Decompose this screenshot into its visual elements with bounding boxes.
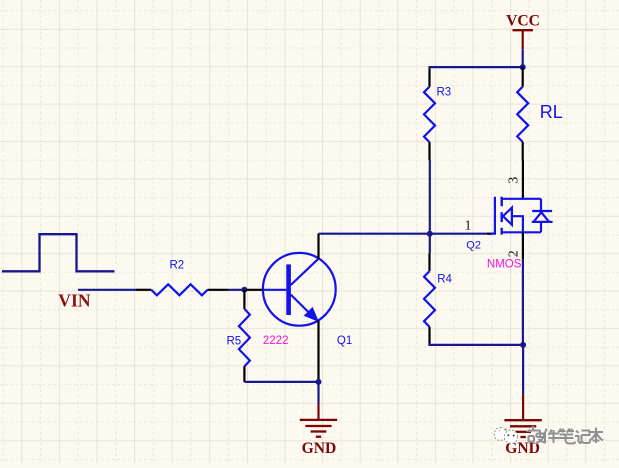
svg-text:2222: 2222 [263, 335, 289, 347]
watermark logo and text [494, 427, 518, 443]
pulse waveform source [2, 234, 115, 271]
wire Q2 source to node E [522, 259, 524, 345]
node E junction source/R4/GND [520, 342, 526, 348]
ground GND left [300, 404, 337, 457]
transistor Q1 [246, 234, 352, 381]
resistor R5 [227, 290, 250, 382]
svg-text:2: 2 [507, 250, 522, 257]
svg-text:Q2: Q2 [466, 239, 481, 251]
MOSFET Q2 [466, 197, 552, 252]
svg-text:R3: R3 [437, 86, 452, 98]
wire VCC rail [430, 67, 523, 68]
wire node E to ground [522, 345, 524, 394]
resistor R3 [424, 68, 451, 160]
resistor RL [517, 67, 563, 160]
Q2 source pin 2 [522, 232, 524, 259]
wire R5 bottom to node B [244, 381, 318, 383]
svg-text:3: 3 [507, 177, 522, 184]
wire node C to R4 [429, 234, 431, 253]
svg-text:Q1: Q1 [337, 335, 352, 347]
svg-text:VCC: VCC [506, 13, 540, 30]
node A junction at base [241, 287, 247, 293]
svg-text:R4: R4 [437, 274, 452, 286]
wire RL to Q2 drain pin 3 [522, 160, 524, 199]
wire node B to ground [317, 382, 319, 404]
wire R4 to node E [430, 344, 524, 345]
svg-text:R2: R2 [170, 260, 185, 272]
resistor R4 [424, 253, 453, 343]
svg-text:R5: R5 [227, 335, 242, 347]
wire R3 to node C [429, 160, 431, 234]
node D junction VCC/RL [520, 64, 526, 70]
svg-text:GND: GND [302, 440, 337, 457]
node B junction emitter/R5/GND [316, 379, 322, 385]
ground GND right [504, 394, 541, 457]
svg-text:NMOS: NMOS [487, 259, 522, 271]
wire Q1 collector to node C [319, 233, 430, 235]
power port VCC [506, 13, 540, 68]
resistor R2 [136, 260, 228, 296]
wire VIN to R2 [78, 289, 136, 291]
wire node C to Q2 gate [430, 233, 487, 235]
wire R2 to node A [228, 289, 244, 291]
svg-text:1: 1 [465, 219, 472, 234]
svg-text:VIN: VIN [58, 290, 91, 310]
svg-text:RL: RL [540, 102, 563, 122]
node C junction R3/R4/gate [427, 231, 433, 237]
